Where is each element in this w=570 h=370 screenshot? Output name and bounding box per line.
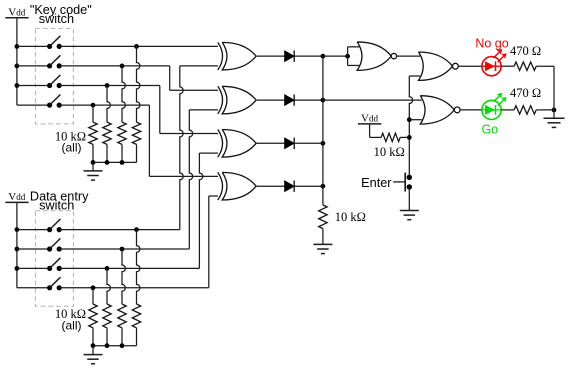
LED D6 Go (green) xyxy=(482,94,506,120)
wire Vdd to pull-up resistor xyxy=(370,124,382,137)
switch SW9 Enter pushbutton xyxy=(393,173,412,192)
wire row1 drop to resistor 4 xyxy=(137,46,140,122)
wire LED1 to R11 xyxy=(501,65,514,67)
resistor R9 10 kΩ (bus pulldown) xyxy=(319,205,327,229)
diode D1 xyxy=(285,50,295,61)
wire key row 2 to corner xyxy=(59,64,170,69)
resistor R6 10 kΩ (data pulldown) xyxy=(103,304,111,346)
switch SW5 (data entry bit 1) xyxy=(17,219,62,232)
wire key row 3 to corner xyxy=(59,83,160,88)
label 10 kΩ (all) data pulldowns xyxy=(55,307,86,332)
op NOR gate U6 (No go) xyxy=(419,52,459,80)
wire inverter tied inputs xyxy=(348,47,360,66)
wire key-code supply rail xyxy=(15,18,20,105)
wire wired-OR bus xyxy=(322,56,324,205)
svg-text:(all): (all) xyxy=(62,141,82,155)
switch SW7 (data entry bit 3) xyxy=(17,258,62,271)
wire top bank ground bus xyxy=(91,160,137,165)
dashed enclosure key-code switches xyxy=(35,28,73,124)
wire NOR U6 output to LED1 xyxy=(458,65,482,67)
ground (bus pulldown) xyxy=(313,229,332,254)
svg-text:470 Ω: 470 Ω xyxy=(510,86,541,100)
wire key row 4 to corner xyxy=(59,103,149,108)
wire data riser 3 xyxy=(199,153,218,268)
resistor R5 10 kΩ (data pulldown) xyxy=(89,304,97,346)
svg-text:Vdd: Vdd xyxy=(361,113,378,125)
resistor R11 470 Ω xyxy=(514,62,536,70)
resistor R10 10 kΩ (enter pull-up) xyxy=(381,133,409,141)
svg-text:Go: Go xyxy=(481,123,498,137)
switch SW8 (data entry bit 4) xyxy=(17,277,62,290)
wire XOR3 output xyxy=(256,142,285,144)
wire LED2 to R12 xyxy=(501,109,514,111)
wire key row 1 to XOR1 input A xyxy=(59,44,218,49)
svg-text:switch: switch xyxy=(39,12,74,26)
wire XOR4 output xyxy=(256,185,285,187)
wire data row 1 to riser xyxy=(59,227,180,232)
wire data row1 drop to resistor 8 xyxy=(137,230,140,304)
wire key row 2 vertical+horizontal to XOR2 input A xyxy=(170,66,218,90)
wire XOR1 output xyxy=(256,55,285,57)
node Vdd (enter pull-up) xyxy=(358,113,381,125)
op NOR gate U5 (inverter) xyxy=(357,42,396,70)
ground (key-code bank) xyxy=(84,162,103,180)
switch SW3 (key code bit 3) xyxy=(17,75,62,88)
op XOR gate U4 xyxy=(218,172,256,200)
wire row4 drop to resistor 1 xyxy=(92,105,94,122)
wire data row4 drop to resistor 5 xyxy=(92,288,94,304)
wire data riser 2 xyxy=(189,110,218,249)
svg-text:Vdd: Vdd xyxy=(8,191,25,203)
resistor R2 10 kΩ (key pulldown) xyxy=(103,122,111,162)
resistor R8 10 kΩ (data pulldown) xyxy=(132,304,140,346)
svg-text:Enter: Enter xyxy=(361,176,392,190)
diode D2 xyxy=(285,94,295,105)
op XOR gate U3 xyxy=(218,130,256,158)
svg-text:No go: No go xyxy=(475,37,508,51)
svg-text:10 kΩ: 10 kΩ xyxy=(374,145,405,159)
node Vdd (key code supply) xyxy=(5,7,28,19)
label "Key code" switch xyxy=(30,3,92,26)
wire R11 to right ground rail xyxy=(536,65,554,67)
wire diode D3 to bus xyxy=(294,141,325,146)
wire data riser 1 xyxy=(180,66,218,230)
wire diode D1 to bus xyxy=(294,54,325,59)
wire diode D4 to bus xyxy=(294,184,325,189)
label Data entry switch xyxy=(30,190,89,213)
ground (data-entry bank) xyxy=(84,346,103,364)
wire data row 4 to riser xyxy=(59,285,209,290)
svg-text:Vdd: Vdd xyxy=(8,7,25,19)
ground (enter switch) xyxy=(400,211,419,220)
resistor R12 470 Ω xyxy=(514,106,536,114)
resistor R4 10 kΩ (key pulldown) xyxy=(132,122,140,162)
wire row2 drop to resistor 3 xyxy=(122,66,125,122)
diode D4 xyxy=(285,181,295,192)
resistor R3 10 kΩ (key pulldown) xyxy=(118,122,126,162)
wire bus to inverter input xyxy=(323,54,350,59)
switch SW4 (key code bit 4) xyxy=(17,95,62,108)
switch SW1 (key code bit 1) xyxy=(17,36,62,49)
wire diode D2 to bus xyxy=(294,98,325,103)
LED D5 No go (red) xyxy=(482,50,506,76)
wire bottom bank ground bus xyxy=(91,343,137,348)
wire data row 3 to riser xyxy=(59,266,199,271)
wire key row 4 vertical+horizontal to XOR4 input A xyxy=(149,105,218,176)
resistor R7 10 kΩ (data pulldown) xyxy=(118,304,126,346)
wire inverter output to NOR U6 input A xyxy=(397,55,420,57)
wire XOR2 output xyxy=(256,99,285,101)
wire data row3 drop to resistor 6 xyxy=(107,268,110,304)
wire data row 2 to riser xyxy=(59,247,189,252)
resistor R1 10 kΩ (key pulldown) xyxy=(89,122,97,162)
dashed enclosure data-entry switches xyxy=(35,211,73,306)
wire data row2 drop to resistor 7 xyxy=(122,249,125,304)
ground (LED return) xyxy=(544,118,565,127)
op NOR gate U7 (Go) xyxy=(420,96,460,124)
wire R12 to right ground rail xyxy=(536,108,556,113)
switch SW2 (key code bit 2) xyxy=(17,55,62,68)
wire NOR U7 output to LED2 xyxy=(460,109,482,111)
wire right ground rail xyxy=(553,66,555,118)
wire enter switch to ground xyxy=(408,187,410,211)
svg-text:470 Ω: 470 Ω xyxy=(510,44,541,58)
node Vdd (data entry supply) xyxy=(5,191,28,203)
wire row3 drop to resistor 2 xyxy=(107,86,110,123)
op XOR gate U2 xyxy=(218,86,256,114)
wire enter node vertical xyxy=(407,76,422,177)
wire data-entry supply rail xyxy=(15,202,20,287)
wire data riser 4 xyxy=(209,196,218,288)
label 10 kΩ (all) key-code pulldowns xyxy=(55,129,86,154)
diode D3 xyxy=(285,138,295,149)
svg-text:(all): (all) xyxy=(62,319,82,333)
switch SW6 (data entry bit 2) xyxy=(17,238,62,251)
svg-text:10 kΩ: 10 kΩ xyxy=(335,210,366,224)
op XOR gate U1 xyxy=(218,42,256,70)
wire bus row2 to NOR U7 input A xyxy=(323,99,422,101)
wire key row 3 vertical+horizontal to XOR3 input A xyxy=(160,86,218,134)
